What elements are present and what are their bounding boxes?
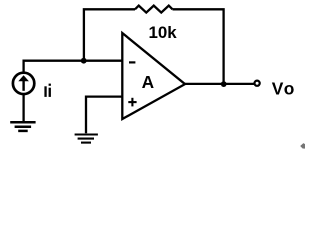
ground left (under current source) bbox=[10, 122, 35, 131]
wire input: from current source top to inverting input bbox=[24, 61, 123, 72]
op-amp non-inverting input plus sign bbox=[128, 98, 136, 107]
output terminal open circle bbox=[255, 81, 260, 86]
stray gray cursor mark bottom-right bbox=[300, 143, 305, 149]
wire non-inverting input to ground bbox=[86, 97, 122, 134]
label Ii bbox=[44, 84, 50, 97]
current source arrow bbox=[18, 75, 29, 91]
current source Ii circle bbox=[13, 73, 34, 94]
svg-text:A: A bbox=[142, 72, 155, 92]
wire current source to ground bbox=[22, 94, 24, 122]
op-amp inverting input minus sign bbox=[129, 61, 135, 63]
svg-text:V: V bbox=[272, 79, 284, 99]
resistor R feedback 10k zigzag bbox=[135, 6, 173, 13]
op-amp U1 triangle bbox=[122, 33, 185, 119]
node junction dot at output feedback tap bbox=[221, 81, 227, 87]
svg-text:10k: 10k bbox=[149, 23, 178, 42]
wire feedback right: from resistor to output node bbox=[173, 9, 224, 84]
wire feedback left: from inverting node up to resistor bbox=[84, 9, 135, 61]
ground right (under + input) bbox=[75, 135, 98, 143]
node junction dot at inverting input bbox=[81, 58, 87, 64]
wire output from op-amp apex to terminal bbox=[185, 83, 254, 85]
svg-text:o: o bbox=[284, 79, 295, 99]
